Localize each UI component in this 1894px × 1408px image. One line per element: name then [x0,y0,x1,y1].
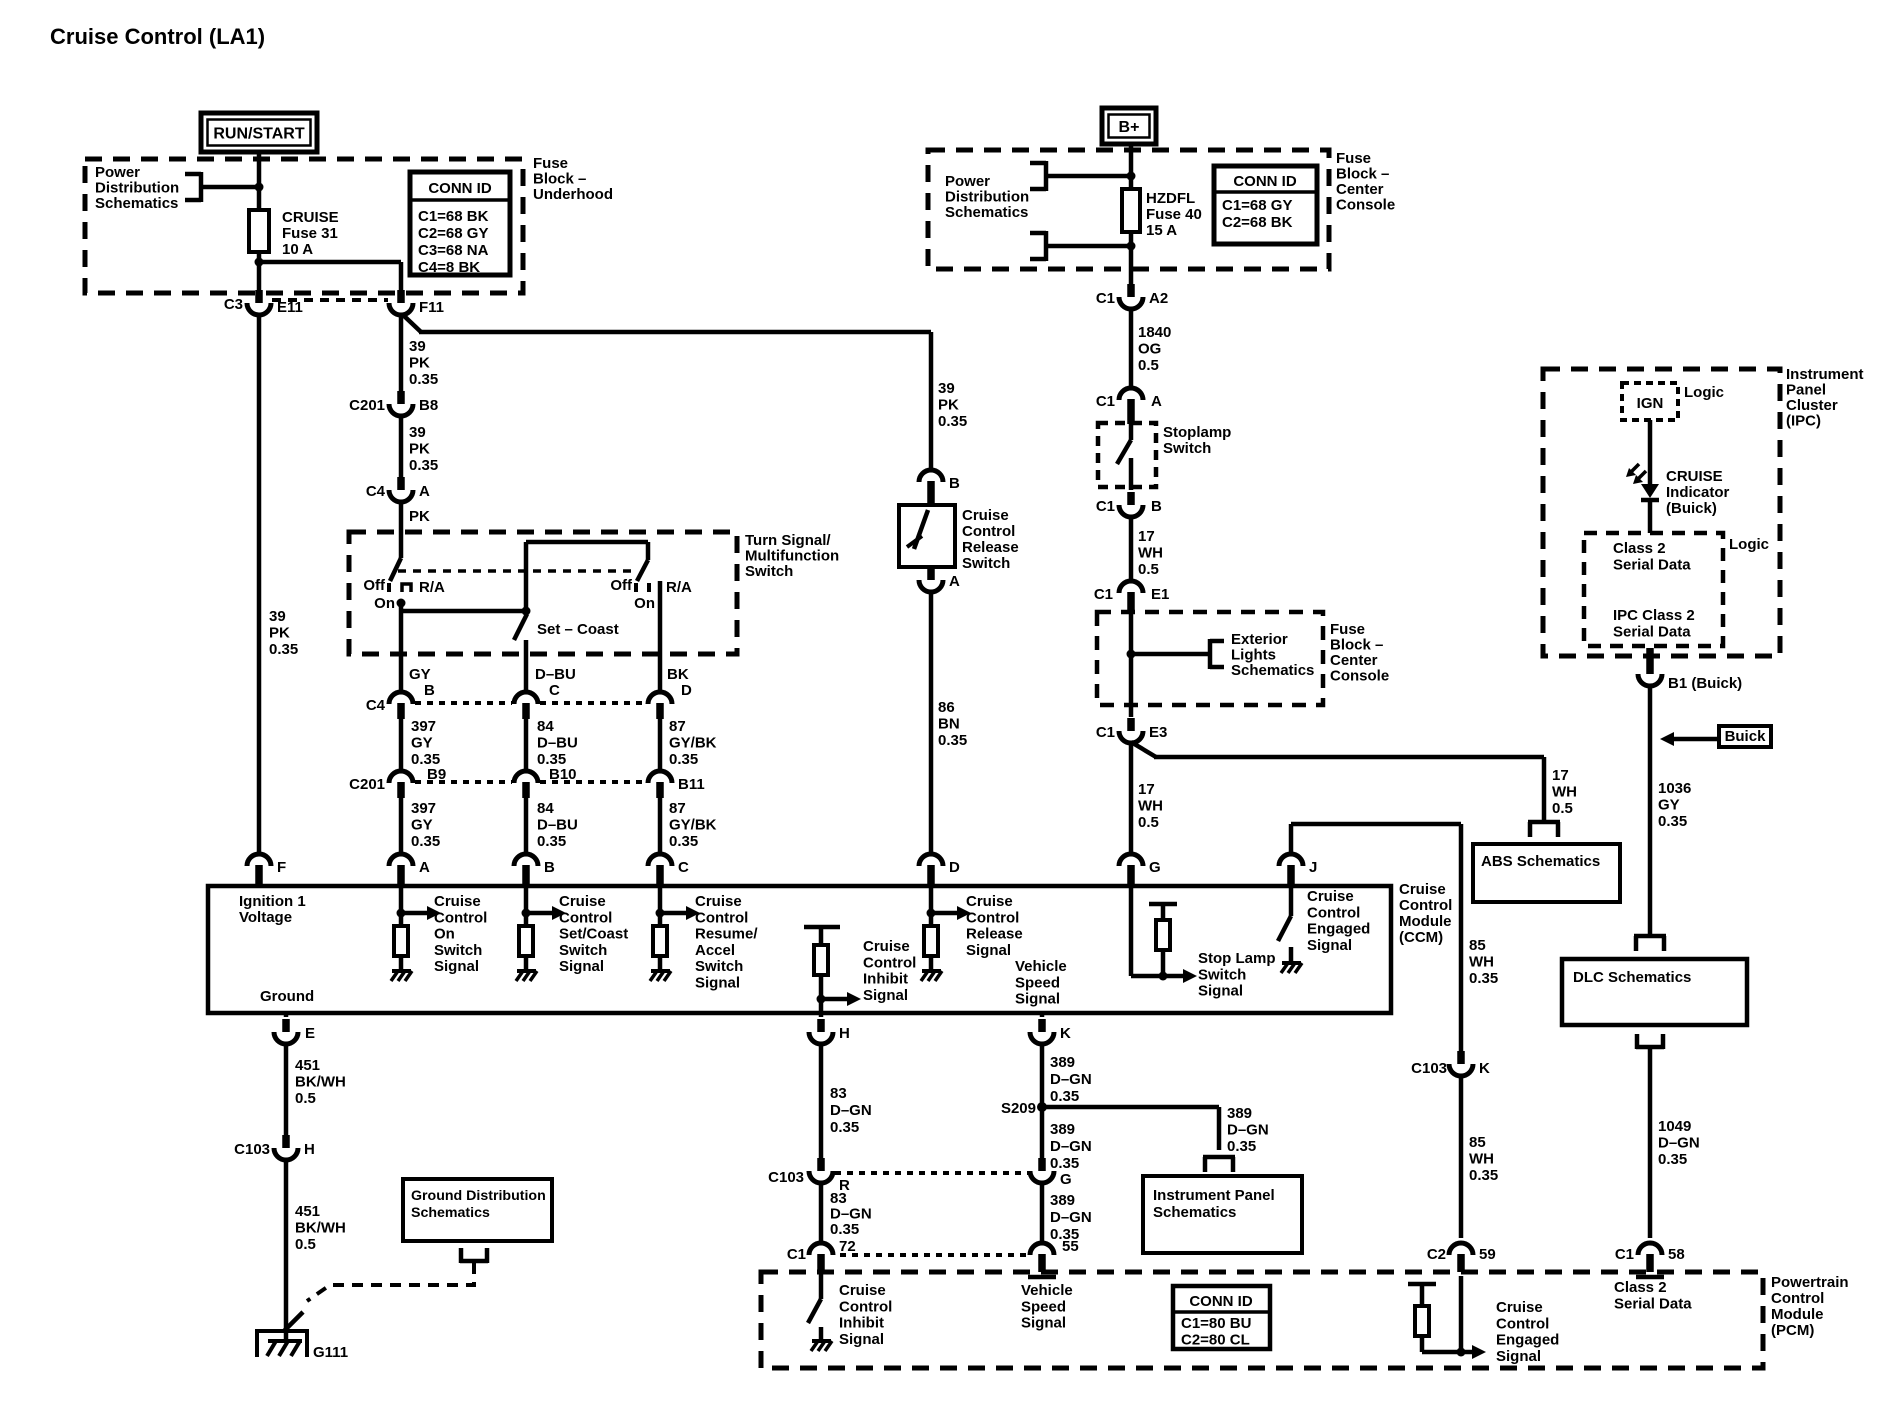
svg-text:C4: C4 [366,483,386,500]
svg-text:Off: Off [610,577,633,594]
svg-text:Switch: Switch [962,555,1010,572]
svg-text:C1: C1 [1096,724,1115,741]
svg-text:Class 2: Class 2 [1614,1279,1667,1296]
svg-text:C: C [678,859,689,876]
svg-text:B1 (Buick): B1 (Buick) [1668,675,1742,692]
svg-text:Module: Module [1399,913,1452,930]
svg-text:0.35: 0.35 [669,751,698,768]
svg-text:0.35: 0.35 [938,732,967,749]
svg-text:C1: C1 [1615,1246,1634,1263]
svg-text:CRUISE: CRUISE [1666,468,1723,485]
svg-text:Schematics: Schematics [95,195,178,212]
svg-text:IPC Class 2: IPC Class 2 [1613,607,1695,624]
svg-text:Signal: Signal [434,958,479,975]
svg-text:0.35: 0.35 [1050,1088,1079,1105]
svg-text:86: 86 [938,699,955,716]
svg-text:0.5: 0.5 [1552,800,1573,817]
svg-text:IGN: IGN [1637,395,1664,412]
svg-text:R/A: R/A [666,579,692,596]
svg-text:GY: GY [409,666,431,683]
svg-text:Control: Control [695,909,748,926]
svg-text:WH: WH [1469,954,1494,971]
svg-text:Schematics: Schematics [411,1205,490,1221]
svg-text:0.5: 0.5 [1138,561,1159,578]
svg-text:Signal: Signal [863,987,908,1004]
svg-text:E1: E1 [1151,586,1169,603]
svg-text:Switch: Switch [745,563,793,580]
svg-text:D–GN: D–GN [1050,1071,1092,1088]
svg-text:D–GN: D–GN [1658,1135,1700,1152]
svg-text:1036: 1036 [1658,780,1691,797]
svg-text:15 A: 15 A [1146,222,1177,239]
svg-text:D–BU: D–BU [535,666,576,683]
svg-text:A: A [419,483,430,500]
svg-text:H: H [839,1025,850,1042]
svg-text:389: 389 [1050,1054,1075,1071]
svg-text:D–GN: D–GN [1227,1122,1269,1139]
svg-text:Set/Coast: Set/Coast [559,926,628,943]
svg-text:0.35: 0.35 [1658,1151,1687,1168]
svg-text:CONN ID: CONN ID [428,180,492,197]
svg-text:Signal: Signal [559,958,604,975]
svg-text:F11: F11 [419,299,444,316]
svg-text:C1: C1 [1096,498,1115,515]
svg-text:Control: Control [839,1298,892,1315]
svg-text:Switch: Switch [434,942,482,959]
svg-text:C2=68 BK: C2=68 BK [1222,214,1293,231]
svg-text:Inhibit: Inhibit [863,971,908,988]
svg-text:0.35: 0.35 [1469,1167,1498,1184]
svg-text:WH: WH [1138,545,1163,562]
svg-text:ABS Schematics: ABS Schematics [1481,853,1600,870]
svg-text:C1: C1 [787,1246,806,1263]
svg-text:0.35: 0.35 [938,413,967,430]
svg-text:1840: 1840 [1138,324,1171,341]
svg-text:HZDFL: HZDFL [1146,190,1195,207]
svg-text:A: A [1151,393,1162,410]
svg-text:389: 389 [1227,1105,1252,1122]
svg-text:GY/BK: GY/BK [669,735,717,752]
svg-text:85: 85 [1469,937,1486,954]
svg-text:C2: C2 [1427,1246,1446,1263]
svg-text:Instrument Panel: Instrument Panel [1153,1187,1275,1204]
svg-text:C4=8 BK: C4=8 BK [418,259,480,276]
svg-text:0.35: 0.35 [409,457,438,474]
svg-text:BK: BK [667,666,689,683]
svg-text:17: 17 [1552,767,1569,784]
svg-text:Cruise: Cruise [839,1282,886,1299]
svg-text:Underhood: Underhood [533,186,613,203]
svg-text:Exterior: Exterior [1231,631,1288,648]
svg-text:Release: Release [966,926,1023,943]
svg-text:Distribution: Distribution [945,189,1029,206]
svg-text:Logic: Logic [1729,536,1769,553]
svg-text:C1: C1 [1096,290,1115,307]
svg-text:BN: BN [938,716,960,733]
svg-text:Set – Coast: Set – Coast [537,621,619,638]
svg-text:Ground Distribution: Ground Distribution [411,1188,546,1204]
svg-text:D–GN: D–GN [830,1102,872,1119]
svg-text:Speed: Speed [1021,1298,1066,1315]
svg-text:Signal: Signal [966,942,1011,959]
svg-text:On: On [374,595,395,612]
svg-text:0.35: 0.35 [1050,1155,1079,1172]
svg-text:C1: C1 [1096,393,1115,410]
svg-text:C2=80 CL: C2=80 CL [1181,1332,1250,1349]
svg-text:(Buick): (Buick) [1666,500,1717,517]
svg-text:84: 84 [537,800,554,817]
svg-text:Fuse 31: Fuse 31 [282,225,338,242]
svg-text:(CCM): (CCM) [1399,929,1443,946]
svg-text:Fuse: Fuse [533,155,568,172]
svg-text:C4: C4 [366,697,386,714]
svg-text:Fuse 40: Fuse 40 [1146,206,1202,223]
svg-text:On: On [434,926,455,943]
svg-text:451: 451 [295,1057,320,1074]
svg-text:58: 58 [1668,1246,1685,1263]
svg-text:DLC Schematics: DLC Schematics [1573,969,1691,986]
svg-text:B+: B+ [1119,119,1140,136]
svg-text:WH: WH [1552,784,1577,801]
svg-text:C1=68 BK: C1=68 BK [418,208,489,225]
svg-text:87: 87 [669,800,686,817]
svg-text:Turn Signal/: Turn Signal/ [745,532,831,549]
svg-text:Cruise Control (LA1): Cruise Control (LA1) [50,24,265,49]
svg-text:Serial Data: Serial Data [1614,1295,1692,1312]
svg-text:GY: GY [411,817,433,834]
svg-text:Class 2: Class 2 [1613,540,1666,557]
svg-text:Panel: Panel [1786,382,1826,399]
svg-text:(PCM): (PCM) [1771,1322,1814,1339]
svg-text:D: D [949,859,960,876]
svg-text:B: B [424,682,435,699]
svg-text:0.35: 0.35 [830,1221,859,1238]
svg-text:Signal: Signal [1198,983,1243,1000]
svg-text:G111: G111 [313,1344,348,1361]
svg-text:Resume/: Resume/ [695,926,758,943]
svg-text:Distribution: Distribution [95,180,179,197]
svg-text:0.5: 0.5 [1138,814,1159,831]
svg-text:CRUISE: CRUISE [282,209,339,226]
svg-text:85: 85 [1469,1134,1486,1151]
svg-text:CONN ID: CONN ID [1233,173,1297,190]
svg-text:C201: C201 [349,776,385,793]
svg-text:Vehicle: Vehicle [1015,958,1067,975]
svg-text:D–GN: D–GN [830,1206,872,1223]
svg-text:Switch: Switch [1198,966,1246,983]
svg-text:Signal: Signal [1015,991,1060,1008]
svg-text:Control: Control [559,909,612,926]
svg-text:Block –: Block – [1336,166,1389,183]
svg-text:Release: Release [962,539,1019,556]
svg-text:GY: GY [1658,797,1680,814]
svg-text:D–BU: D–BU [537,735,578,752]
svg-text:Cruise: Cruise [695,893,742,910]
svg-text:Block –: Block – [1330,637,1383,654]
svg-text:Inhibit: Inhibit [839,1315,884,1332]
svg-text:Center: Center [1330,652,1378,669]
svg-text:Control: Control [1496,1315,1549,1332]
svg-text:Switch: Switch [695,958,743,975]
svg-text:Cruise: Cruise [966,893,1013,910]
svg-text:0.35: 0.35 [1469,970,1498,987]
svg-text:E: E [305,1025,315,1042]
svg-text:Cruise: Cruise [1307,888,1354,905]
svg-text:Cruise: Cruise [1399,881,1446,898]
svg-text:87: 87 [669,718,686,735]
svg-text:Control: Control [434,909,487,926]
svg-text:GY: GY [411,735,433,752]
svg-text:PK: PK [409,355,430,372]
svg-text:Cruise: Cruise [559,893,606,910]
svg-text:Control: Control [966,909,1019,926]
svg-text:GY/BK: GY/BK [669,817,717,834]
svg-text:Signal: Signal [1021,1315,1066,1332]
svg-text:Engaged: Engaged [1496,1332,1559,1349]
svg-text:0.35: 0.35 [830,1119,859,1136]
svg-text:0.35: 0.35 [1227,1138,1256,1155]
svg-text:Instrument: Instrument [1786,366,1864,383]
svg-text:(IPC): (IPC) [1786,413,1821,430]
svg-text:K: K [1060,1025,1071,1042]
svg-text:39: 39 [269,608,286,625]
svg-text:Voltage: Voltage [239,909,292,926]
svg-text:Power: Power [95,164,140,181]
svg-text:C1: C1 [1094,586,1113,603]
svg-text:Serial Data: Serial Data [1613,623,1691,640]
svg-text:Stoplamp: Stoplamp [1163,424,1231,441]
svg-text:H: H [304,1141,315,1158]
svg-text:PK: PK [938,397,959,414]
svg-text:Cruise: Cruise [1496,1299,1543,1316]
svg-text:Signal: Signal [1307,937,1352,954]
svg-text:K: K [1479,1060,1490,1077]
svg-text:10 A: 10 A [282,241,313,258]
svg-text:Logic: Logic [1684,384,1724,401]
svg-text:Serial Data: Serial Data [1613,556,1691,573]
svg-text:Power: Power [945,173,990,190]
svg-text:83: 83 [830,1085,847,1102]
svg-text:S209: S209 [1001,1100,1036,1117]
svg-text:C1=68 GY: C1=68 GY [1222,197,1292,214]
svg-text:Off: Off [363,577,386,594]
svg-text:0.35: 0.35 [269,641,298,658]
svg-text:C3=68 NA: C3=68 NA [418,242,489,259]
svg-text:451: 451 [295,1203,320,1220]
svg-text:Switch: Switch [559,942,607,959]
svg-text:Control: Control [1771,1290,1824,1307]
svg-text:C1=80 BU: C1=80 BU [1181,1315,1251,1332]
svg-text:Schematics: Schematics [1231,662,1314,679]
svg-text:G: G [1060,1171,1072,1188]
svg-text:17: 17 [1138,781,1155,798]
svg-text:A: A [419,859,430,876]
svg-text:0.35: 0.35 [1658,813,1687,830]
svg-text:Accel: Accel [695,942,735,959]
svg-text:A2: A2 [1149,290,1168,307]
svg-text:397: 397 [411,718,436,735]
svg-text:Fuse: Fuse [1336,150,1371,167]
svg-text:84: 84 [537,718,554,735]
svg-text:Ignition 1: Ignition 1 [239,893,306,910]
svg-text:Stop Lamp: Stop Lamp [1198,950,1276,967]
svg-text:Cruise: Cruise [962,507,1009,524]
svg-text:83: 83 [830,1190,847,1207]
svg-text:Signal: Signal [695,975,740,992]
svg-text:39: 39 [938,380,955,397]
svg-text:Fuse: Fuse [1330,621,1365,638]
svg-text:17: 17 [1138,528,1155,545]
svg-text:C103: C103 [1411,1060,1447,1077]
svg-text:0.5: 0.5 [1138,357,1159,374]
svg-text:A: A [949,573,960,590]
svg-text:Powertrain: Powertrain [1771,1274,1849,1291]
svg-text:BK/WH: BK/WH [295,1074,346,1091]
svg-text:D–GN: D–GN [1050,1209,1092,1226]
svg-text:Multifunction: Multifunction [745,548,839,565]
svg-text:389: 389 [1050,1192,1075,1209]
svg-text:C103: C103 [234,1141,270,1158]
svg-text:WH: WH [1469,1151,1494,1168]
svg-text:Control: Control [1307,904,1360,921]
svg-text:Control: Control [1399,897,1452,914]
svg-text:D–BU: D–BU [537,817,578,834]
svg-text:J: J [1309,859,1317,876]
svg-text:B8: B8 [419,397,438,414]
svg-text:72: 72 [839,1238,856,1255]
svg-text:0.35: 0.35 [411,833,440,850]
svg-text:D–GN: D–GN [1050,1138,1092,1155]
svg-text:Buick: Buick [1725,728,1767,745]
svg-text:Control: Control [962,523,1015,540]
svg-text:Vehicle: Vehicle [1021,1282,1073,1299]
svg-text:D: D [681,682,692,699]
svg-text:Schematics: Schematics [945,204,1028,221]
svg-text:F: F [277,859,286,876]
svg-text:Cruise: Cruise [863,938,910,955]
svg-text:Lights: Lights [1231,647,1276,664]
svg-text:Signal: Signal [1496,1348,1541,1365]
svg-text:Console: Console [1336,197,1395,214]
svg-text:PK: PK [269,625,290,642]
svg-text:55: 55 [1062,1238,1079,1255]
svg-text:B: B [949,475,960,492]
svg-text:Ground: Ground [260,988,314,1005]
svg-text:R/A: R/A [419,579,445,596]
svg-text:B: B [1151,498,1162,515]
svg-text:OG: OG [1138,341,1161,358]
svg-text:C3: C3 [224,296,243,313]
svg-text:1049: 1049 [1658,1118,1691,1135]
svg-text:C: C [549,682,560,699]
svg-text:Module: Module [1771,1306,1824,1323]
svg-text:C2=68 GY: C2=68 GY [418,225,488,242]
svg-text:0.35: 0.35 [669,833,698,850]
svg-text:0.35: 0.35 [537,833,566,850]
svg-text:On: On [634,595,655,612]
svg-text:0.5: 0.5 [295,1236,316,1253]
svg-text:39: 39 [409,424,426,441]
svg-text:G: G [1149,859,1161,876]
svg-text:Center: Center [1336,181,1384,198]
svg-text:59: 59 [1479,1246,1496,1263]
svg-text:Block –: Block – [533,171,586,188]
svg-text:PK: PK [409,441,430,458]
svg-text:BK/WH: BK/WH [295,1220,346,1237]
svg-text:RUN/START: RUN/START [213,126,304,143]
svg-text:PK: PK [409,508,430,525]
svg-text:WH: WH [1138,798,1163,815]
svg-text:Cruise: Cruise [434,893,481,910]
svg-text:Console: Console [1330,668,1389,685]
svg-text:Cluster: Cluster [1786,397,1838,414]
svg-text:B: B [544,859,555,876]
svg-text:C201: C201 [349,397,385,414]
svg-text:Speed: Speed [1015,974,1060,991]
svg-text:B11: B11 [678,776,705,793]
svg-text:0.5: 0.5 [295,1090,316,1107]
svg-text:E3: E3 [1149,724,1167,741]
svg-text:Indicator: Indicator [1666,484,1730,501]
svg-text:Schematics: Schematics [1153,1204,1236,1221]
svg-text:39: 39 [409,338,426,355]
svg-text:Signal: Signal [839,1331,884,1348]
svg-text:Control: Control [863,954,916,971]
svg-text:397: 397 [411,800,436,817]
svg-text:Engaged: Engaged [1307,921,1370,938]
svg-text:CONN ID: CONN ID [1189,1293,1253,1310]
svg-text:389: 389 [1050,1121,1075,1138]
svg-text:0.35: 0.35 [409,371,438,388]
svg-text:Switch: Switch [1163,440,1211,457]
svg-text:C103: C103 [768,1169,804,1186]
